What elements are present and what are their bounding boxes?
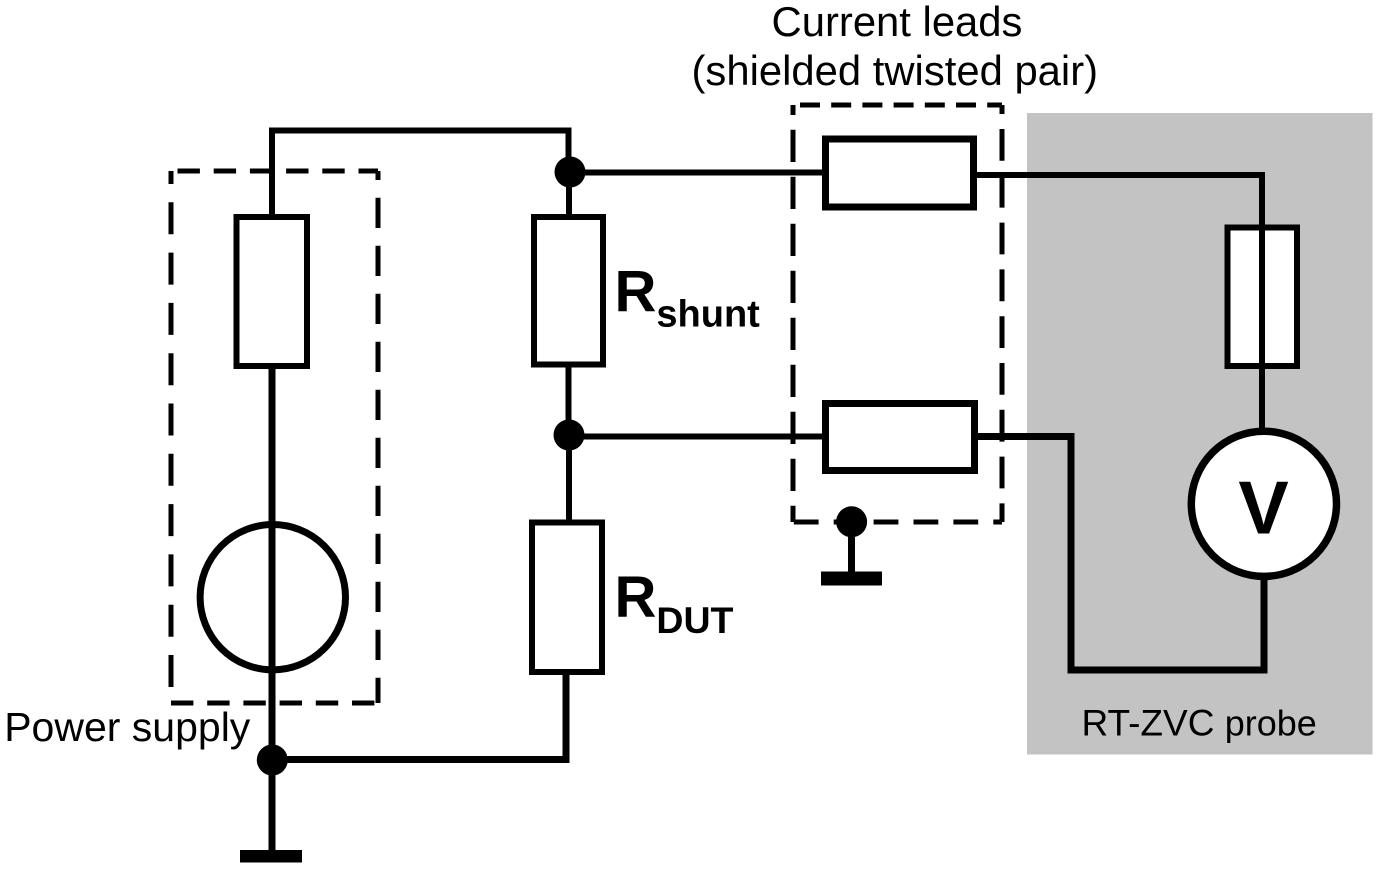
svg-text:(shielded twisted pair): (shielded twisted pair) [692,47,1099,94]
svg-text:Current leads: Current leads [772,0,1023,45]
svg-text:Power supply: Power supply [4,704,251,750]
svg-text:V: V [1238,466,1288,550]
svg-text:RT-ZVC probe: RT-ZVC probe [1082,703,1317,744]
svg-text:Rshunt: Rshunt [615,259,761,335]
svg-text:RDUT: RDUT [615,565,734,641]
